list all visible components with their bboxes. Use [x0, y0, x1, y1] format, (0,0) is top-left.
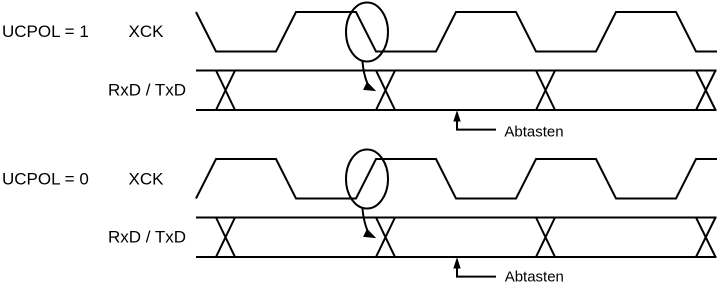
- RxD/TxD data bus upper line (top diagram): [196, 70, 717, 72]
- svg-text:RxD / TxD: RxD / TxD: [108, 228, 186, 247]
- data transition X 2 (bottom): [376, 218, 395, 258]
- RxD/TxD data bus upper line (bottom diagram): [196, 217, 717, 219]
- curved sample-point arrow from ellipse to data line (bottom): [362, 208, 375, 237]
- data transition X 1 (bottom): [216, 218, 235, 258]
- ellipse highlighting falling XCK edge (top): [346, 3, 388, 62]
- Abtasten pointer arrow (top): [454, 112, 496, 130]
- data transition X 2 (top): [376, 71, 395, 111]
- svg-text:RxD / TxD: RxD / TxD: [108, 80, 186, 99]
- RxD/TxD data bus lower line (top diagram): [196, 109, 717, 111]
- ellipse highlighting rising XCK edge (bottom): [346, 150, 388, 209]
- XCK clock waveform (UCPOL=0): [196, 159, 717, 199]
- data transition X 4 (top): [696, 71, 716, 111]
- XCK clock waveform (UCPOL=1): [196, 12, 717, 52]
- data transition X 3 (bottom): [536, 218, 555, 258]
- svg-text:Abtasten: Abtasten: [505, 269, 564, 286]
- data transition X 1 (top): [216, 71, 235, 111]
- data transition X 4 (bottom): [696, 218, 716, 258]
- svg-text:UCPOL = 1: UCPOL = 1: [2, 22, 89, 41]
- svg-text:UCPOL = 0: UCPOL = 0: [2, 170, 89, 189]
- data transition X 3 (top): [536, 71, 555, 111]
- svg-text:XCK: XCK: [129, 170, 165, 189]
- RxD/TxD data bus lower line (bottom diagram): [196, 256, 717, 258]
- svg-text:Abtasten: Abtasten: [504, 123, 563, 140]
- Abtasten pointer arrow (bottom): [454, 259, 496, 277]
- svg-text:XCK: XCK: [129, 22, 165, 41]
- curved sample-point arrow from ellipse to data line (top): [362, 61, 375, 90]
